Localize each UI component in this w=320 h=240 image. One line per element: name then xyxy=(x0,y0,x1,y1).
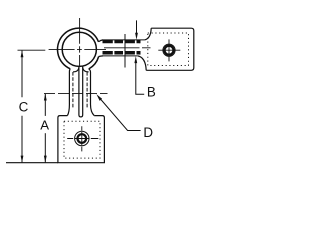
bottom block hidden inner rectangle (dotted) xyxy=(64,121,100,158)
right block screw head (thick ring) xyxy=(165,46,174,55)
svg-text:A: A xyxy=(40,118,49,133)
A extension line xyxy=(44,93,108,95)
arm rail end cap lower xyxy=(139,51,141,55)
ring inner circle (pipe bore) xyxy=(62,32,96,66)
A dimension line upper segment xyxy=(44,94,46,116)
vertical socket hidden bore line right (dashed) xyxy=(86,72,88,109)
slit between clamp halves (vertical), ends in U xyxy=(79,66,83,117)
A bottom arrow xyxy=(44,156,47,163)
bottom block outline xyxy=(58,116,105,163)
bottom block screw head (thick ring) xyxy=(78,134,87,143)
arm upper clamp rail (thick dashed) xyxy=(103,40,141,44)
arm rail end cap upper xyxy=(139,40,141,43)
arm centerline xyxy=(104,47,151,49)
horizontal centerline through ring (also C extension) xyxy=(18,49,107,52)
A top arrow xyxy=(44,94,47,101)
right block hidden inner rectangle (dotted) xyxy=(148,33,189,66)
slit flare to left bore wall xyxy=(73,68,79,72)
vertical socket left outer edge xyxy=(67,69,70,116)
bottom block screw outer circle xyxy=(75,131,89,145)
fillet ring to arm top edge xyxy=(99,40,104,42)
B dimension upper leader line xyxy=(136,20,138,33)
arm lower clamp rail (thick dashed) xyxy=(103,51,141,55)
vertical centerline through ring xyxy=(79,18,81,66)
svg-text:C: C xyxy=(19,99,29,114)
A dimension line lower segment xyxy=(44,133,46,162)
D arrow (points up-left) xyxy=(96,94,102,101)
slit flare to right bore wall xyxy=(83,68,89,72)
vertical socket hidden bore line left (dashed) xyxy=(72,72,74,109)
right hole crosshair vertical xyxy=(168,39,170,61)
bottom hole crosshair vertical xyxy=(81,126,83,151)
base line xyxy=(6,162,58,164)
right hole crosshair horizontal xyxy=(158,49,180,51)
D leader line xyxy=(98,97,140,131)
part split line crossing arm xyxy=(124,34,126,68)
C top arrow xyxy=(21,50,24,57)
arm bottom edge xyxy=(103,55,138,57)
C bottom arrow xyxy=(21,156,24,163)
B lower arrow (points up at arm bottom) xyxy=(134,56,137,63)
C dimension line upper segment xyxy=(21,51,23,98)
ring outer circle (clamp around horizontal pipe), gaps at right and bottom xyxy=(58,28,99,69)
C dimension line lower segment xyxy=(21,116,23,163)
right block bottom-left fillet xyxy=(138,56,146,70)
svg-text:D: D xyxy=(143,125,153,140)
right block outline xyxy=(146,28,194,70)
B upper arrow (points down at arm top) xyxy=(135,33,138,40)
svg-text:B: B xyxy=(147,85,156,100)
B dimension lower leader line xyxy=(136,63,144,95)
bottom hole crosshair horizontal xyxy=(67,138,98,140)
fillet ring to arm bottom edge xyxy=(99,55,103,58)
vertical socket right outer edge xyxy=(89,69,95,116)
right block top-left fillet xyxy=(145,28,152,40)
arm top edge xyxy=(103,39,145,41)
right block screw outer circle xyxy=(163,44,175,56)
